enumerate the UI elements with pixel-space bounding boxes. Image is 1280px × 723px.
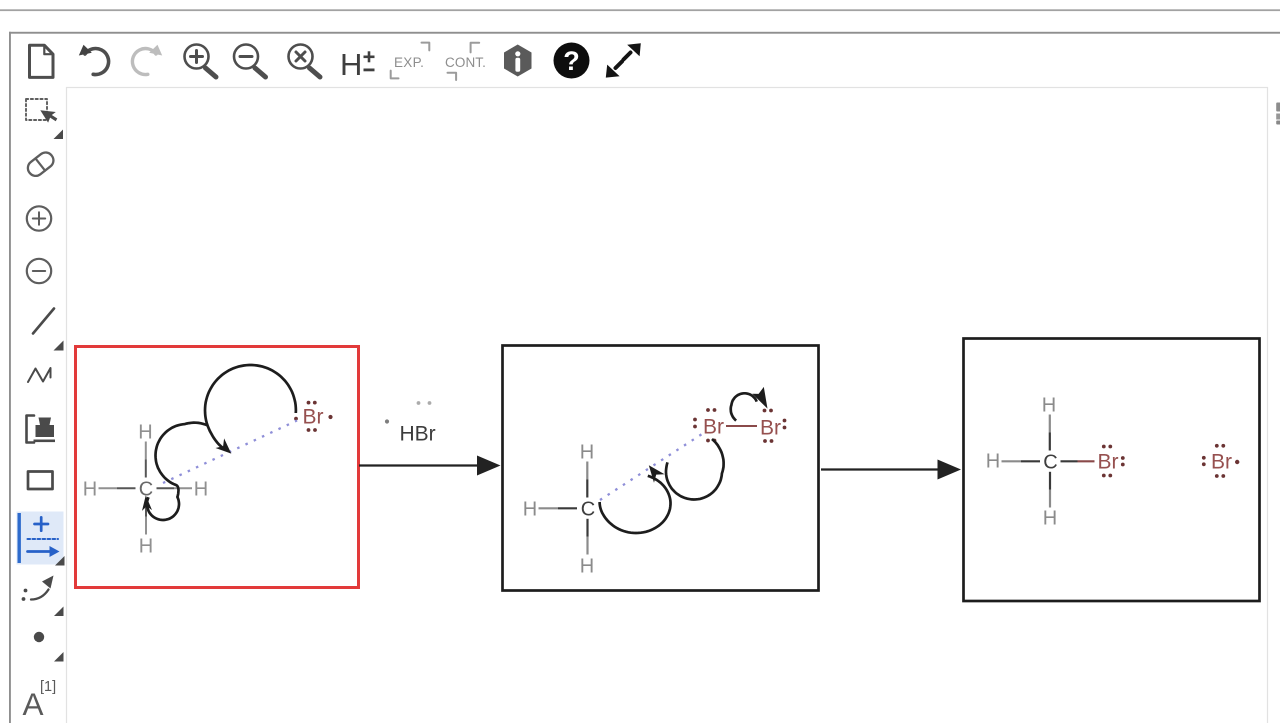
- svg-text:H: H: [523, 498, 537, 520]
- small arrowhead at C: [142, 495, 152, 511]
- toolbar icon: expand: [606, 43, 641, 77]
- svg-text:H: H: [340, 47, 362, 82]
- bond C-H bottom: [1049, 472, 1051, 490]
- toolbar icon: new document: [30, 45, 54, 77]
- bond C-H top: [1049, 415, 1051, 433]
- svg-text:EXP.: EXP.: [394, 55, 424, 70]
- toolbar icon: zoom reset: [289, 45, 321, 78]
- BOX 1 : CH4 + Br radical: [83, 365, 333, 557]
- tool: rectangle select: [26, 99, 63, 139]
- bond C-Br: [1061, 460, 1078, 462]
- bond C-H left: [99, 487, 118, 489]
- svg-text:Br: Br: [703, 416, 724, 439]
- bond C-H bottom: [145, 499, 147, 517]
- top rule: [0, 9, 1280, 11]
- arrowhead on dashed bond: [216, 438, 232, 453]
- tool: single bond: [33, 309, 64, 351]
- lone pairs on bonded Br: [1102, 445, 1125, 478]
- toolbar icon: H+/-: [340, 47, 375, 82]
- lone pairs on Br2: [763, 409, 787, 443]
- toolbar icon: redo (disabled): [132, 45, 162, 75]
- bond Br-Br: [726, 425, 757, 427]
- lone pairs + radical electron on free Br: [1202, 444, 1240, 478]
- small curved arrow over Br-Br: [731, 393, 757, 420]
- reaction box 2: [503, 346, 819, 591]
- tool: radical dot: [34, 632, 64, 662]
- toolbar icon: undo: [79, 45, 109, 75]
- toolbar icon: zoom out: [234, 45, 266, 78]
- curved arrow from Br (large circle): [205, 365, 296, 448]
- arrowhead pointing to dashed bond: [649, 465, 665, 483]
- label HBr over arrow 1: [385, 401, 436, 445]
- tool: rectangle shape: [28, 472, 53, 490]
- svg-text:H: H: [580, 555, 594, 577]
- svg-text:H: H: [194, 478, 208, 500]
- right-edge clipped widget: [1276, 103, 1280, 125]
- LEFT TOOLBAR: [17, 99, 65, 722]
- svg-text:C: C: [1043, 451, 1057, 473]
- svg-text:H: H: [580, 441, 594, 463]
- reaction box 1 (red, selected): [76, 347, 359, 588]
- TOP TOOLBAR: [30, 43, 641, 83]
- svg-text:Br: Br: [303, 406, 324, 429]
- bond C-H bottom: [586, 519, 588, 537]
- reaction arrow 2: [821, 460, 961, 480]
- svg-text:Br: Br: [1098, 451, 1119, 474]
- toolbar icon: zoom in: [185, 45, 217, 78]
- reaction arrow 1: [359, 456, 501, 476]
- toolbar icon: info hexagon: [504, 45, 532, 77]
- svg-text:HBr: HBr: [400, 423, 436, 446]
- tool: atom label A[1]: [23, 679, 57, 722]
- bond C-H top: [145, 442, 147, 460]
- partial bond C...Br1 (dashed): [600, 434, 702, 500]
- arrowhead at Br2: [752, 387, 767, 409]
- svg-text:Br: Br: [760, 417, 781, 440]
- sketcher frame top border: [9, 32, 1280, 34]
- BOX 3 : CH3Br + Br radical: [986, 394, 1240, 529]
- bond C-H top: [586, 462, 588, 480]
- curved arrow from C-H bond (S spiral): [147, 423, 208, 520]
- lone pairs on Br: [294, 401, 333, 432]
- bond C-H right: [157, 487, 175, 489]
- svg-text:H: H: [1042, 394, 1056, 416]
- tool: zoom out: [27, 259, 51, 283]
- sketcher frame left border: [9, 32, 11, 723]
- tool: eraser: [25, 149, 57, 178]
- toolbar icon: EXP.: [391, 43, 430, 79]
- curved arrow from Br1 (circle below): [666, 439, 724, 500]
- svg-text:Br: Br: [1211, 451, 1232, 474]
- reaction box 3: [964, 339, 1260, 602]
- svg-text:C: C: [581, 498, 595, 520]
- bond C-H left: [539, 507, 559, 509]
- svg-text:H: H: [139, 535, 153, 557]
- svg-text:H: H: [1043, 507, 1057, 529]
- svg-text:[1]: [1]: [40, 679, 56, 695]
- partial bond C...Br (dashed): [163, 421, 297, 484]
- svg-text:H: H: [986, 450, 1000, 472]
- BOX 2 : CH3 radical + Br2: [523, 387, 787, 578]
- svg-text:CONT.: CONT.: [445, 55, 486, 70]
- CANVAS CONTENT: [76, 339, 1260, 602]
- lone pairs on Br1: [693, 408, 716, 442]
- tool: template/stamp: [27, 416, 56, 443]
- toolbar icon: CONT.: [445, 43, 486, 80]
- tool: chain: [28, 368, 51, 382]
- tool: electron flow (selected): [17, 512, 65, 566]
- svg-text:H: H: [83, 478, 97, 500]
- bond C-H left: [1002, 460, 1022, 462]
- tool: zoom in: [27, 206, 51, 230]
- svg-text:H: H: [138, 421, 152, 443]
- toolbar icon: help: [554, 43, 590, 79]
- svg-text:?: ?: [563, 46, 580, 76]
- tool: curved electron arrow: [22, 576, 64, 617]
- curved arrow from C (circle, with head): [600, 476, 671, 533]
